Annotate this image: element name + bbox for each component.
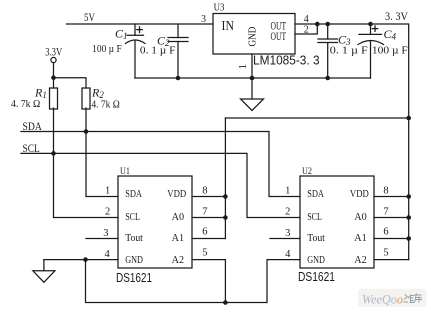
- svg-text:U2: U2: [302, 167, 312, 177]
- svg-text:4: 4: [104, 249, 110, 260]
- svg-text:SCL: SCL: [307, 211, 322, 223]
- svg-text:4. 7k Ω: 4. 7k Ω: [11, 98, 40, 110]
- svg-text:WeeQoo: WeeQoo: [362, 291, 403, 306]
- svg-text:2: 2: [285, 207, 290, 218]
- svg-text:3. 3V: 3. 3V: [385, 9, 408, 23]
- svg-text:GND: GND: [307, 254, 325, 266]
- svg-text:3: 3: [103, 228, 108, 239]
- svg-text:A0: A0: [172, 211, 185, 223]
- svg-text:4: 4: [285, 249, 291, 260]
- svg-text:5V: 5V: [84, 10, 95, 24]
- svg-text:U3: U3: [214, 3, 225, 14]
- svg-text:8: 8: [202, 185, 207, 196]
- svg-text:DS1621: DS1621: [298, 269, 335, 284]
- svg-text:1: 1: [105, 186, 110, 197]
- svg-text:VDD: VDD: [167, 188, 186, 200]
- svg-text:A2: A2: [172, 254, 185, 266]
- svg-text:A0: A0: [354, 211, 367, 223]
- svg-text:GND: GND: [125, 254, 143, 266]
- svg-text:7: 7: [202, 206, 207, 217]
- svg-text:3: 3: [201, 14, 206, 25]
- svg-text:1: 1: [237, 64, 249, 70]
- svg-text:8: 8: [383, 185, 388, 196]
- svg-text:OUT: OUT: [271, 29, 287, 43]
- svg-text:SCL: SCL: [125, 211, 140, 223]
- svg-text:2: 2: [304, 25, 309, 36]
- svg-text:A1: A1: [354, 232, 367, 244]
- svg-text:SCL: SCL: [23, 141, 40, 155]
- svg-text:4: 4: [304, 14, 309, 25]
- svg-text:3.3V: 3.3V: [45, 44, 62, 58]
- svg-text:Tout: Tout: [307, 232, 325, 244]
- svg-text:SDA: SDA: [23, 119, 43, 133]
- svg-text:LM1085-3. 3: LM1085-3. 3: [253, 53, 320, 68]
- svg-text:1: 1: [285, 186, 290, 197]
- svg-text:3: 3: [285, 228, 290, 239]
- svg-text:A1: A1: [172, 232, 185, 244]
- svg-text:GND: GND: [247, 26, 258, 46]
- svg-text:5: 5: [202, 247, 207, 258]
- svg-text:DS1621: DS1621: [116, 270, 152, 285]
- svg-text:VDD: VDD: [350, 188, 369, 200]
- svg-text:6: 6: [383, 227, 388, 238]
- svg-text:6: 6: [202, 227, 207, 238]
- svg-text:7: 7: [383, 206, 388, 217]
- svg-text:100 µ F: 100 µ F: [372, 44, 408, 56]
- svg-text:IN: IN: [222, 18, 235, 33]
- svg-text:SDA: SDA: [307, 188, 324, 200]
- svg-text:0. 1 µ F: 0. 1 µ F: [330, 45, 368, 57]
- svg-text:U1: U1: [120, 167, 130, 177]
- svg-text:0. 1 µ F: 0. 1 µ F: [140, 44, 176, 56]
- svg-text:100 µ F: 100 µ F: [92, 43, 122, 55]
- svg-text:A2: A2: [354, 254, 367, 266]
- svg-text:Tout: Tout: [125, 232, 143, 244]
- svg-text:SDA: SDA: [125, 188, 142, 200]
- svg-text:5: 5: [383, 247, 388, 258]
- svg-text:4. 7k Ω: 4. 7k Ω: [91, 99, 119, 111]
- svg-text:2: 2: [105, 207, 110, 218]
